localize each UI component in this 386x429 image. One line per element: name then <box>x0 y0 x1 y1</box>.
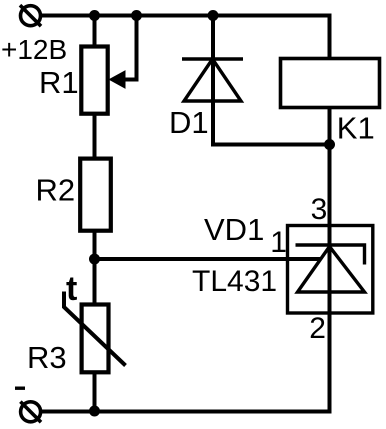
svg-text:K1: K1 <box>337 111 375 146</box>
svg-text:R2: R2 <box>36 173 76 208</box>
wire relay to VD1 cathode <box>328 107 332 226</box>
wire R1 to R2 <box>93 113 97 159</box>
wire rail through D1 to relay node <box>213 16 330 145</box>
pin 3 label <box>311 193 328 226</box>
wire top rail <box>41 16 330 59</box>
wiper arrow R1 <box>110 71 126 88</box>
svg-text:+12В: +12В <box>1 34 67 65</box>
label minus <box>15 387 25 390</box>
thermistor R3 body <box>82 305 109 373</box>
svg-text:TL431: TL431 <box>192 265 277 298</box>
svg-text:R3: R3 <box>27 340 67 375</box>
label D1 <box>169 105 209 140</box>
junction node top R1 <box>89 10 100 21</box>
svg-text:3: 3 <box>311 193 328 226</box>
resistor R1 (potentiometer body) <box>81 47 107 114</box>
diode D1 cathode bar <box>182 57 243 61</box>
terminal minus output <box>20 402 41 423</box>
svg-text:VD1: VD1 <box>204 212 264 247</box>
label R2 <box>36 173 76 208</box>
junction node wiper <box>131 10 142 21</box>
resistor R2 <box>80 159 111 231</box>
TL431 cathode bar with reference bend <box>296 245 365 265</box>
thermistor R3 strike line <box>64 292 126 366</box>
wire R3 to bottom rail <box>93 372 97 411</box>
label TL431 <box>192 265 277 298</box>
junction node D1 top <box>208 10 219 21</box>
terminal +12V input <box>20 5 41 26</box>
TL431 triangle <box>298 247 365 293</box>
TL431 internal cathode wire <box>328 226 332 314</box>
label t thermistor <box>66 270 77 308</box>
svg-text:R1: R1 <box>39 65 79 100</box>
pin 2 label <box>309 312 326 345</box>
shunt regulator VD1 TL431 body <box>288 226 373 314</box>
label +12В <box>1 34 67 65</box>
junction node reference divider <box>89 254 100 265</box>
junction node bottom rail <box>89 406 100 417</box>
label K1 <box>337 111 375 146</box>
wire reference to VD1 pin 1 <box>95 257 322 261</box>
diode D1 triangle <box>184 59 241 101</box>
svg-text:t: t <box>66 270 77 308</box>
junction node relay/D1 <box>324 139 335 150</box>
label R1 <box>39 65 79 100</box>
label VD1 <box>204 212 264 247</box>
svg-text:1: 1 <box>270 226 287 259</box>
label R3 <box>27 340 67 375</box>
svg-text:D1: D1 <box>169 105 209 140</box>
svg-text:2: 2 <box>309 312 326 345</box>
relay K1 coil <box>281 59 380 108</box>
wire rail to R1 <box>93 16 97 48</box>
wire bottom rail <box>41 313 330 412</box>
wire wiper branch <box>124 16 137 80</box>
wire R2 to R3 <box>93 231 97 305</box>
pin 1 label <box>270 226 287 259</box>
